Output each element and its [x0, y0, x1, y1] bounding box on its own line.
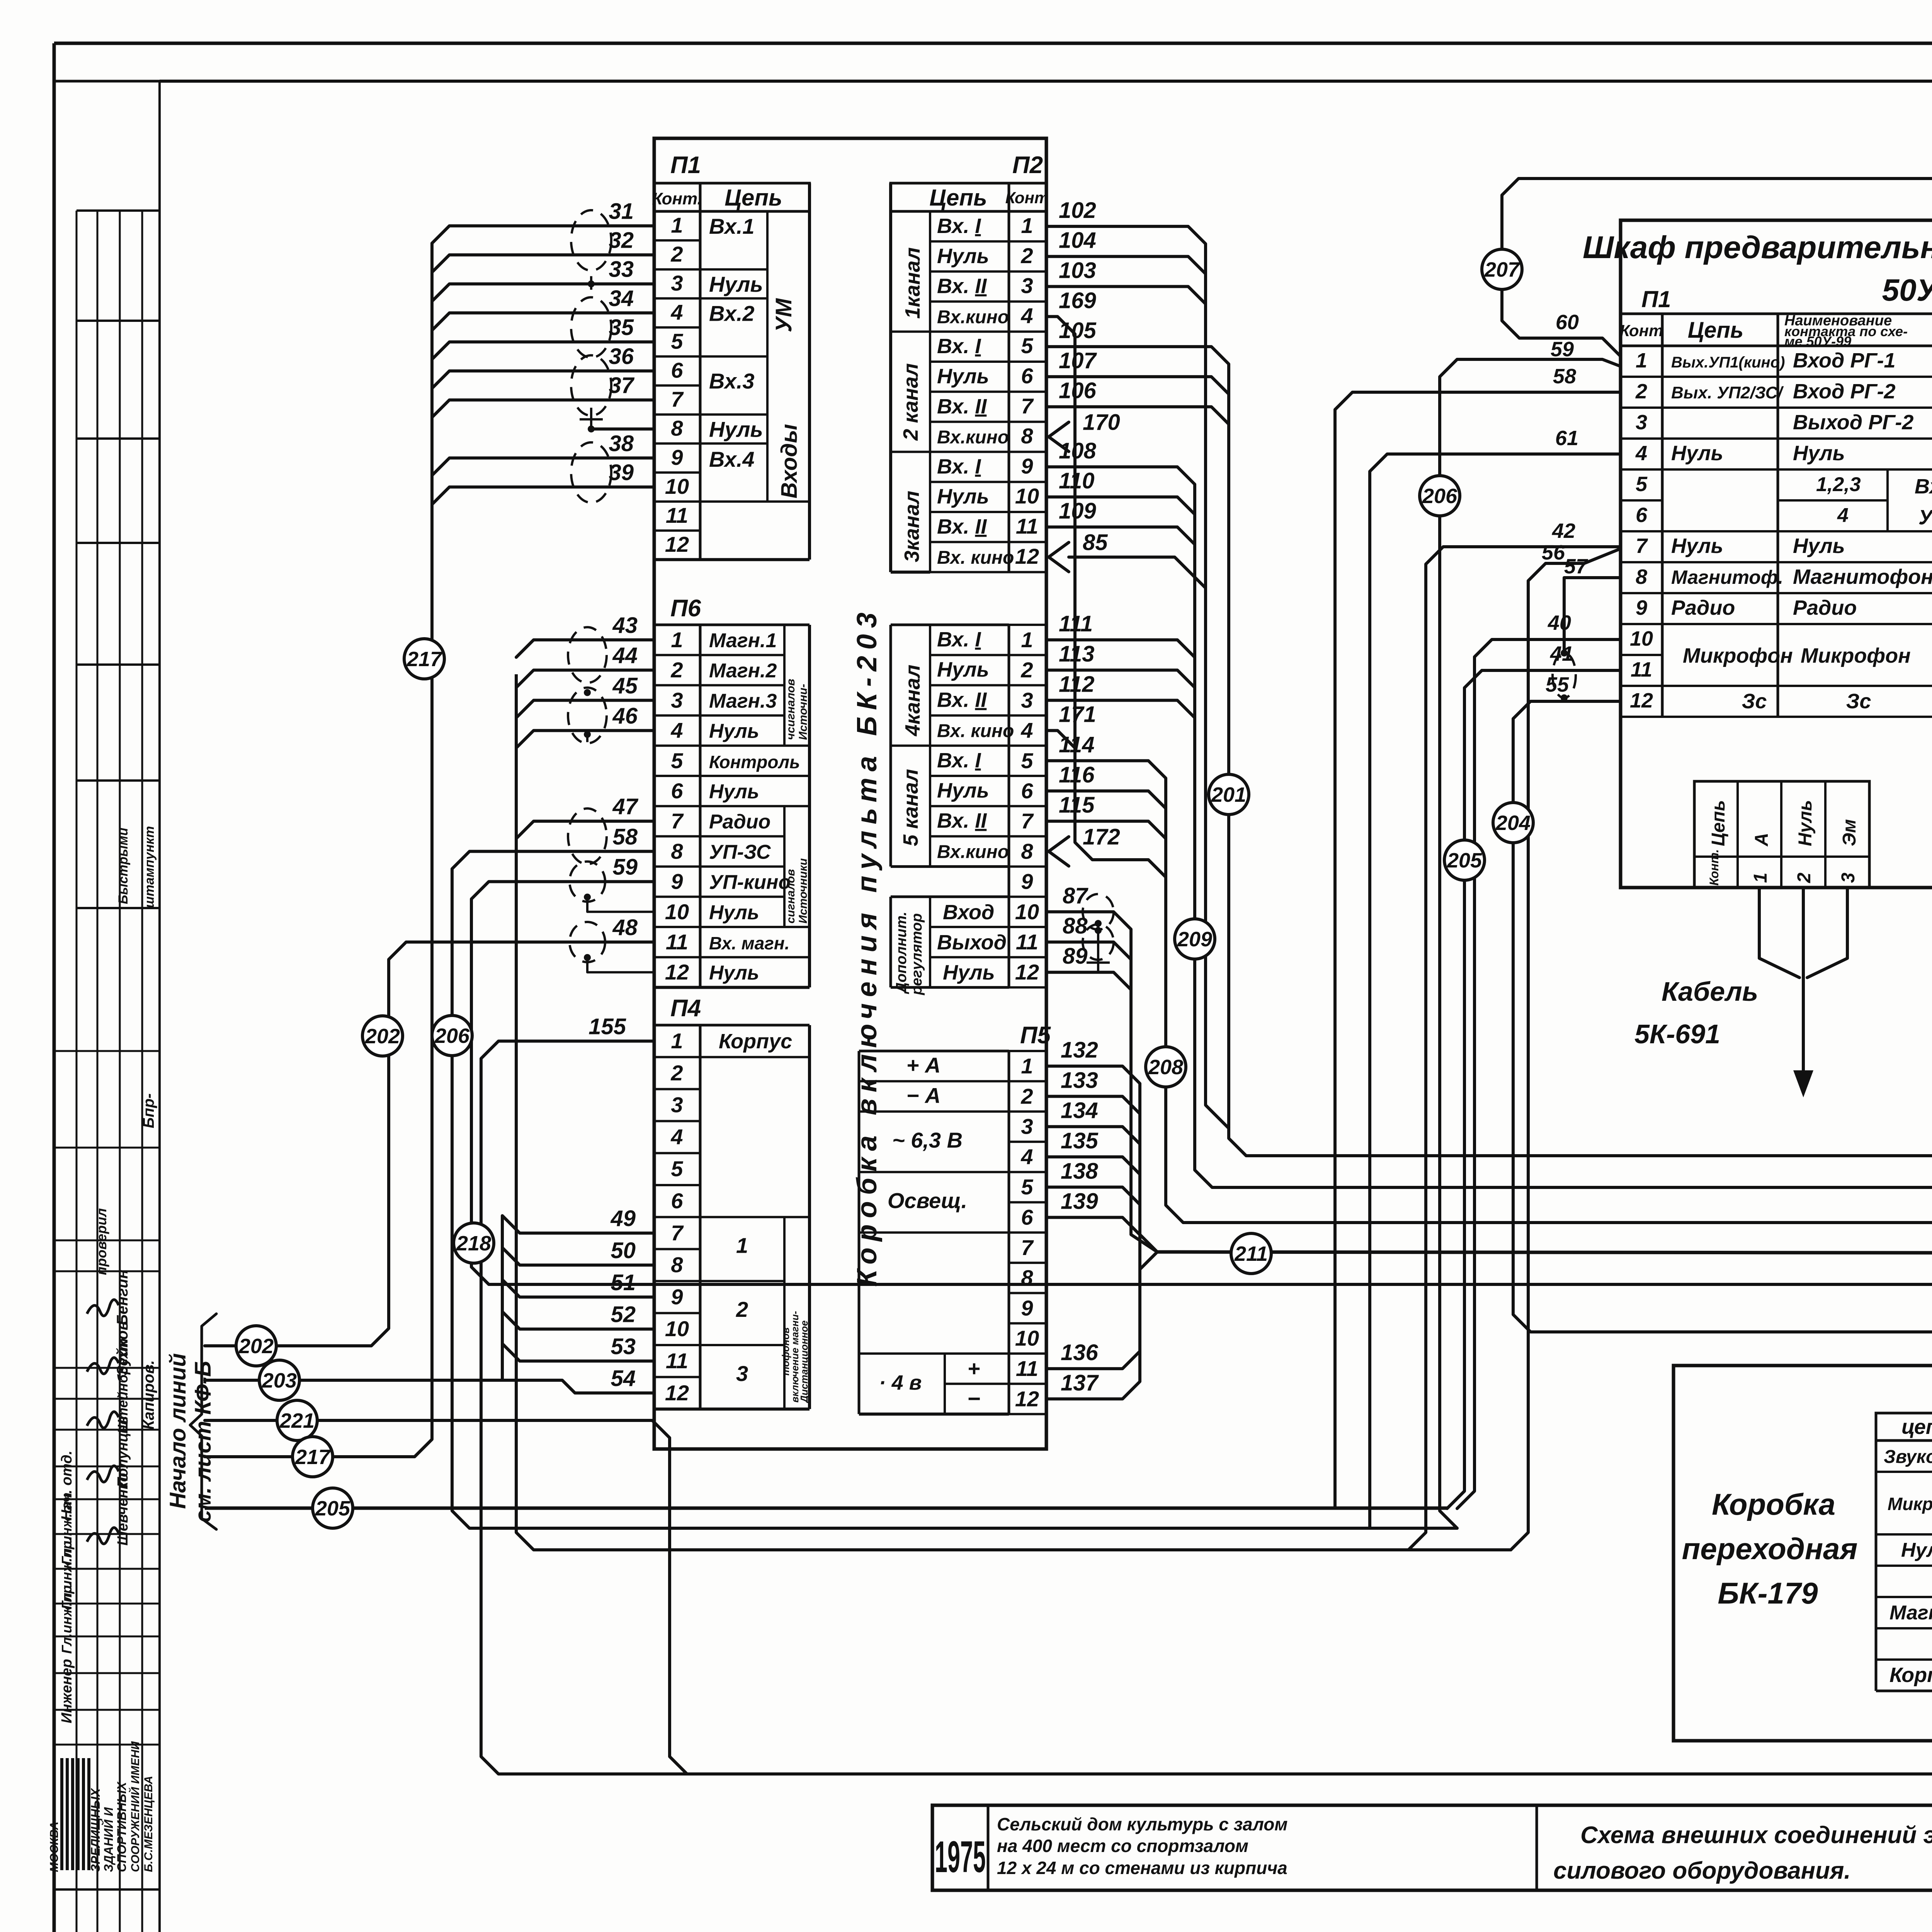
svg-text:Конт.: Конт. — [1707, 849, 1721, 886]
svg-text:ЗРЕЛИЩНЫХ: ЗРЕЛИЩНЫХ — [88, 1788, 102, 1872]
svg-text:П2: П2 — [1012, 152, 1043, 179]
svg-text:Магн.3: Магн.3 — [709, 690, 777, 712]
svg-text:3: 3 — [671, 1093, 683, 1117]
svg-text:Магн.2: Магн.2 — [709, 660, 777, 682]
svg-text:Контроль: Контроль — [709, 752, 800, 772]
svg-text:Нуль: Нуль — [937, 245, 989, 268]
svg-text:12: 12 — [1630, 689, 1653, 712]
svg-text:− А: − А — [906, 1083, 941, 1107]
svg-text:Вх.3: Вх.3 — [709, 369, 755, 393]
svg-text:10: 10 — [1015, 900, 1039, 924]
svg-text:Корпус: Корпус — [719, 1030, 792, 1053]
svg-text:6: 6 — [1021, 1205, 1033, 1230]
svg-text:Нуль: Нуль — [709, 901, 759, 924]
svg-text:12: 12 — [1015, 960, 1039, 984]
svg-text:54: 54 — [611, 1366, 636, 1391]
svg-text:тофонов: тофонов — [780, 1327, 791, 1376]
svg-text:3: 3 — [671, 688, 683, 712]
svg-text:Вх.кино: Вх.кино — [937, 307, 1009, 327]
svg-text:57: 57 — [1564, 555, 1588, 578]
svg-text:Дополнит.: Дополнит. — [893, 912, 910, 994]
svg-text:3: 3 — [1838, 872, 1859, 883]
svg-text:218: 218 — [456, 1232, 491, 1255]
svg-text:4канал: 4канал — [901, 665, 924, 736]
svg-text:переходная: переходная — [1682, 1532, 1858, 1566]
svg-text:10: 10 — [1015, 1326, 1039, 1350]
svg-text:Вх. I: Вх. I — [937, 628, 981, 651]
svg-text:155: 155 — [588, 1014, 626, 1039]
svg-text:172: 172 — [1083, 824, 1120, 849]
svg-text:1: 1 — [1021, 1054, 1033, 1078]
svg-text:Нуль: Нуль — [937, 485, 989, 508]
svg-text:42: 42 — [1552, 519, 1575, 543]
svg-text:Нуль: Нуль — [709, 720, 759, 743]
svg-text:52: 52 — [611, 1302, 636, 1327]
svg-text:+: + — [968, 1356, 980, 1381]
svg-text:10: 10 — [665, 474, 689, 498]
svg-text:чсигналов: чсигналов — [784, 679, 797, 740]
svg-text:1975: 1975 — [935, 1832, 986, 1882]
svg-text:36: 36 — [609, 344, 634, 369]
svg-text:9: 9 — [671, 869, 683, 894]
svg-text:47: 47 — [612, 794, 638, 819]
svg-text:Магн.1: Магн.1 — [709, 629, 777, 652]
svg-text:Нуль: Нуль — [1795, 800, 1816, 846]
svg-text:2: 2 — [1635, 380, 1647, 403]
svg-text:202: 202 — [365, 1025, 400, 1048]
svg-text:см. лист КФ-Б: см. лист КФ-Б — [190, 1361, 216, 1522]
svg-text:Вх. I: Вх. I — [937, 749, 981, 772]
svg-text:61: 61 — [1555, 427, 1578, 450]
svg-text:~ 6,3 В: ~ 6,3 В — [892, 1128, 963, 1152]
svg-text:43: 43 — [612, 613, 638, 638]
svg-text:Нуль: Нуль — [943, 961, 995, 984]
svg-text:Вх. II: Вх. II — [937, 809, 987, 832]
svg-text:Коробка включения пульта БК: Коробка включения пульта БК-203 — [852, 606, 883, 1287]
svg-text:7: 7 — [1021, 1235, 1034, 1260]
svg-text:СПОРТИВНЫХ: СПОРТИВНЫХ — [115, 1781, 129, 1872]
svg-text:12: 12 — [665, 1381, 689, 1405]
svg-text:3: 3 — [1021, 688, 1033, 712]
svg-text:2 канал: 2 канал — [899, 363, 922, 441]
svg-text:−: − — [967, 1386, 980, 1411]
svg-text:2: 2 — [670, 658, 683, 682]
svg-text:Нуль: Нуль — [709, 962, 759, 984]
svg-text:112: 112 — [1059, 672, 1094, 697]
svg-text:170: 170 — [1083, 410, 1120, 435]
svg-text:Магнит.: Магнит. — [1889, 1602, 1932, 1624]
svg-text:Нуль: Нуль — [1793, 534, 1845, 558]
svg-text:4: 4 — [670, 300, 683, 324]
svg-text:Вых. УП2/ЗС/: Вых. УП2/ЗС/ — [1671, 383, 1784, 402]
svg-text:Нуль: Нуль — [709, 417, 763, 442]
svg-text:3канал: 3канал — [900, 491, 923, 562]
svg-text:206: 206 — [434, 1024, 470, 1048]
svg-text:6: 6 — [1021, 779, 1033, 803]
svg-text:11: 11 — [666, 503, 688, 527]
svg-text:37: 37 — [609, 373, 634, 398]
svg-text:Вход РГ-1: Вход РГ-1 — [1793, 349, 1896, 372]
svg-text:2: 2 — [1794, 872, 1815, 883]
svg-text:12: 12 — [1015, 1386, 1039, 1411]
svg-text:Выход РГ-2: Выход РГ-2 — [1793, 411, 1913, 434]
svg-text:206: 206 — [1422, 485, 1458, 508]
svg-text:Звукосним: Звукосним — [1884, 1447, 1932, 1467]
svg-text:Микрофон: Микрофон — [1683, 644, 1793, 667]
svg-text:211: 211 — [1234, 1242, 1268, 1265]
svg-text:Нуль: Нуль — [937, 779, 989, 802]
svg-text:113: 113 — [1059, 641, 1094, 667]
svg-text:2: 2 — [670, 1061, 683, 1085]
svg-text:85: 85 — [1083, 530, 1108, 555]
svg-text:Бенгин: Бенгин — [114, 1269, 131, 1325]
svg-text:106: 106 — [1059, 378, 1097, 403]
svg-text:Микрофон: Микрофон — [1888, 1494, 1932, 1514]
svg-text:7: 7 — [1021, 394, 1034, 418]
svg-text:35: 35 — [609, 315, 634, 340]
svg-text:Вх. кино: Вх. кино — [937, 721, 1014, 742]
svg-text:БК-179: БК-179 — [1718, 1576, 1818, 1610]
svg-text:50: 50 — [611, 1238, 636, 1263]
svg-text:2: 2 — [1020, 243, 1033, 268]
svg-text:штампункт: штампункт — [142, 826, 157, 908]
svg-text:цепь: цепь — [1901, 1415, 1932, 1439]
svg-text:П1: П1 — [670, 152, 701, 179]
svg-text:+ А: + А — [906, 1053, 941, 1077]
svg-text:114: 114 — [1059, 732, 1094, 757]
svg-text:5: 5 — [671, 748, 683, 773]
svg-text:ме 50У-99: ме 50У-99 — [1784, 333, 1851, 349]
svg-text:4: 4 — [670, 718, 683, 743]
svg-text:7: 7 — [671, 387, 684, 412]
svg-text:12 х 24 м со стенами из: 12 х 24 м со стенами из кирпича — [997, 1858, 1287, 1878]
svg-text:Радио: Радио — [1793, 596, 1857, 619]
svg-text:102: 102 — [1059, 198, 1096, 223]
svg-text:12: 12 — [1015, 544, 1039, 568]
svg-text:Входы: Входы — [777, 424, 802, 498]
svg-text:Нуль: Нуль — [937, 365, 989, 388]
svg-text:Радио: Радио — [709, 811, 770, 833]
svg-text:МОСКВА: МОСКВА — [48, 1821, 61, 1872]
svg-text:111: 111 — [1059, 611, 1093, 636]
svg-text:Вх.2: Вх.2 — [709, 301, 755, 325]
svg-text:1канал: 1канал — [901, 247, 924, 319]
svg-text:Инженер: Инженер — [59, 1659, 75, 1723]
svg-text:171: 171 — [1059, 702, 1096, 727]
svg-text:205: 205 — [1447, 849, 1482, 872]
svg-text:6: 6 — [671, 358, 683, 383]
svg-text:Б.С.МЕЗЕНЦЕВА: Б.С.МЕЗЕНЦЕВА — [142, 1776, 155, 1872]
svg-text:8: 8 — [1021, 839, 1033, 863]
svg-text:31: 31 — [609, 199, 634, 224]
svg-text:5: 5 — [1021, 1175, 1033, 1199]
svg-text:Конт: Конт — [1620, 321, 1663, 340]
svg-text:4: 4 — [1020, 1145, 1033, 1169]
svg-text:А: А — [1752, 833, 1772, 847]
svg-text:4: 4 — [1020, 718, 1033, 743]
svg-text:109: 109 — [1059, 498, 1096, 524]
svg-text:5: 5 — [671, 1156, 683, 1181]
svg-text:Вх. II: Вх. II — [937, 275, 987, 298]
svg-text:УО: УО — [1918, 506, 1932, 529]
svg-text:1: 1 — [671, 1029, 683, 1053]
svg-text:Вх.кино: Вх.кино — [937, 842, 1009, 862]
svg-text:регулятор: регулятор — [909, 913, 925, 996]
svg-text:59: 59 — [1551, 338, 1574, 361]
svg-text:Цепь: Цепь — [1688, 318, 1743, 343]
svg-text:1: 1 — [736, 1233, 748, 1258]
svg-text:221: 221 — [279, 1409, 315, 1432]
svg-text:5: 5 — [671, 329, 683, 353]
svg-text:202: 202 — [238, 1335, 274, 1358]
svg-text:136: 136 — [1061, 1340, 1099, 1365]
svg-text:6: 6 — [671, 1189, 683, 1213]
svg-text:Вх. I: Вх. I — [937, 335, 981, 358]
svg-text:6: 6 — [1021, 364, 1033, 388]
svg-text:Вход: Вход — [943, 901, 994, 924]
svg-text:10: 10 — [665, 900, 689, 924]
svg-text:5К-691: 5К-691 — [1634, 1019, 1720, 1049]
svg-text:Нуль: Нуль — [1901, 1539, 1932, 1561]
svg-text:Цепь: Цепь — [929, 185, 987, 211]
svg-text:Нуль: Нуль — [937, 658, 989, 681]
svg-text:9: 9 — [671, 1284, 683, 1309]
svg-text:134: 134 — [1061, 1098, 1098, 1123]
svg-text:Микрофон: Микрофон — [1801, 644, 1911, 667]
svg-text:Источники: Источники — [797, 858, 810, 923]
svg-text:51: 51 — [611, 1270, 636, 1295]
svg-text:П4: П4 — [670, 995, 701, 1022]
svg-text:Освещ.: Освещ. — [888, 1189, 967, 1213]
svg-text:58: 58 — [612, 824, 638, 849]
svg-text:9: 9 — [1021, 1296, 1033, 1320]
svg-text:132: 132 — [1061, 1037, 1098, 1063]
svg-text:П6: П6 — [670, 595, 701, 622]
svg-text:34: 34 — [609, 286, 634, 311]
svg-text:204: 204 — [1495, 811, 1531, 835]
svg-text:2: 2 — [1020, 1084, 1033, 1108]
svg-text:Шкаф предварительных усилите: Шкаф предварительных усилителей — [1583, 230, 1932, 265]
svg-text:Вх. II: Вх. II — [937, 515, 987, 538]
svg-text:силового оборудования.: силового оборудования. — [1553, 1857, 1851, 1884]
svg-text:1: 1 — [671, 628, 683, 652]
svg-text:56: 56 — [1542, 541, 1565, 564]
svg-text:2: 2 — [1020, 658, 1033, 682]
svg-text:Нуль: Нуль — [1793, 442, 1845, 465]
svg-text:133: 133 — [1061, 1068, 1098, 1093]
svg-text:Начало линий: Начало линий — [165, 1353, 190, 1509]
svg-text:6: 6 — [1636, 503, 1648, 527]
svg-text:Магнитофон: Магнитофон — [1793, 565, 1932, 588]
svg-text:2: 2 — [736, 1297, 748, 1321]
svg-text:3: 3 — [736, 1361, 748, 1386]
svg-text:Вход РГ-2: Вход РГ-2 — [1793, 380, 1896, 403]
svg-text:50У-99: 50У-99 — [1882, 273, 1932, 307]
svg-text:Конт: Конт — [1005, 189, 1049, 207]
svg-text:9: 9 — [1636, 596, 1647, 619]
svg-text:58: 58 — [1553, 365, 1576, 388]
svg-text:5: 5 — [1021, 748, 1033, 773]
svg-text:Вх. I: Вх. I — [937, 455, 981, 478]
svg-text:39: 39 — [609, 460, 634, 485]
svg-text:на 400 мест со спортзалом: на 400 мест со спортзалом — [997, 1836, 1248, 1856]
svg-text:УП-ЗС: УП-ЗС — [709, 841, 771, 863]
svg-text:8: 8 — [1021, 424, 1033, 448]
svg-text:СООРУЖЕНИЙ ИМЕНИ: СООРУЖЕНИЙ ИМЕНИ — [128, 1741, 142, 1872]
svg-text:32: 32 — [609, 228, 634, 253]
svg-text:2: 2 — [670, 242, 683, 266]
svg-text:8: 8 — [1021, 1265, 1033, 1290]
svg-text:1: 1 — [1636, 349, 1647, 372]
svg-text:12: 12 — [665, 532, 689, 556]
svg-text:44: 44 — [612, 643, 638, 668]
svg-text:3: 3 — [1021, 1114, 1033, 1139]
svg-text:Кабель: Кабель — [1662, 976, 1758, 1007]
svg-text:Шевченко: Шевченко — [115, 1473, 131, 1546]
svg-text:Нуль: Нуль — [1671, 442, 1723, 465]
svg-text:Эм: Эм — [1839, 819, 1860, 846]
svg-text:10: 10 — [665, 1316, 689, 1341]
svg-text:116: 116 — [1059, 762, 1095, 787]
svg-text:11: 11 — [1016, 930, 1038, 954]
svg-text:Капиров.: Капиров. — [140, 1360, 157, 1430]
svg-text:45: 45 — [612, 673, 638, 698]
svg-text:107: 107 — [1059, 348, 1097, 373]
svg-text:11: 11 — [666, 930, 688, 954]
svg-text:104: 104 — [1059, 228, 1096, 253]
svg-text:Корпус: Корпус — [1889, 1663, 1932, 1687]
svg-text:12: 12 — [665, 960, 689, 984]
svg-text:П1: П1 — [1641, 286, 1671, 312]
svg-text:137: 137 — [1061, 1370, 1099, 1395]
svg-text:9: 9 — [1021, 869, 1033, 894]
svg-text:· 4 в: · 4 в — [879, 1371, 922, 1394]
svg-text:Вх. кино: Вх. кино — [937, 548, 1014, 568]
svg-text:Вх. II: Вх. II — [937, 688, 987, 711]
svg-text:4: 4 — [1635, 442, 1647, 465]
svg-text:Зс: Зс — [1742, 690, 1767, 713]
svg-text:Магнитоф.: Магнитоф. — [1671, 566, 1783, 588]
svg-text:1: 1 — [1021, 628, 1033, 652]
svg-text:Гл.инж.пр.: Гл.инж.пр. — [59, 1582, 75, 1654]
svg-text:7: 7 — [1636, 534, 1648, 558]
svg-text:11: 11 — [666, 1349, 688, 1373]
svg-text:49: 49 — [610, 1206, 636, 1231]
svg-text:11: 11 — [1016, 1356, 1038, 1381]
svg-text:Источни-: Источни- — [797, 684, 810, 740]
svg-text:38: 38 — [609, 431, 634, 456]
svg-text:5: 5 — [1021, 333, 1033, 358]
svg-text:7: 7 — [671, 809, 684, 833]
svg-text:41: 41 — [1550, 642, 1573, 665]
svg-text:59: 59 — [612, 855, 638, 880]
svg-text:Вх.кино: Вх.кино — [937, 427, 1009, 448]
svg-text:48: 48 — [612, 915, 638, 940]
svg-text:Схема внешних с: Схема внешних соединений электро- — [1580, 1822, 1932, 1849]
svg-text:Зс: Зс — [1846, 690, 1871, 713]
svg-text:87: 87 — [1063, 883, 1088, 908]
svg-text:3: 3 — [1636, 411, 1647, 434]
svg-text:1,2,3: 1,2,3 — [1816, 473, 1861, 496]
svg-text:Сельский дом культурь с за: Сельский дом культурь с залом — [997, 1814, 1287, 1834]
svg-text:55: 55 — [1546, 673, 1569, 696]
svg-text:8: 8 — [671, 1253, 683, 1277]
svg-text:5: 5 — [1636, 473, 1648, 496]
svg-text:Конт.: Конт. — [652, 189, 702, 208]
svg-text:Нуль: Нуль — [709, 272, 763, 296]
svg-text:209: 209 — [1177, 928, 1212, 951]
svg-text:Быстрыми: Быстрыми — [116, 828, 131, 904]
svg-text:217: 217 — [406, 648, 443, 671]
svg-text:УМ: УМ — [771, 298, 796, 332]
svg-text:8: 8 — [671, 416, 683, 440]
svg-text:11: 11 — [1016, 514, 1038, 538]
svg-text:Нуль: Нуль — [709, 781, 759, 803]
svg-text:138: 138 — [1061, 1158, 1099, 1184]
svg-text:Коробка: Коробка — [1712, 1487, 1835, 1521]
svg-text:проверил: проверил — [94, 1208, 109, 1275]
svg-text:6: 6 — [671, 779, 683, 803]
svg-text:Бпр-: Бпр- — [140, 1093, 157, 1128]
svg-text:108: 108 — [1059, 438, 1097, 463]
svg-text:УП-кино: УП-кино — [709, 871, 791, 894]
svg-text:1: 1 — [1021, 213, 1033, 238]
svg-text:217: 217 — [295, 1446, 331, 1469]
svg-text:Вх. магн.: Вх. магн. — [709, 933, 789, 953]
svg-text:7: 7 — [671, 1221, 684, 1245]
svg-text:7: 7 — [1021, 809, 1034, 833]
svg-text:46: 46 — [612, 704, 638, 729]
svg-text:110: 110 — [1059, 468, 1094, 493]
svg-text:Радио: Радио — [1671, 596, 1735, 619]
svg-text:Цепь: Цепь — [724, 185, 782, 211]
svg-text:5 канал: 5 канал — [899, 769, 922, 846]
svg-text:Вх.4: Вх.4 — [709, 447, 755, 471]
svg-text:3: 3 — [1021, 274, 1033, 298]
svg-text:Вых.УП1(кино): Вых.УП1(кино) — [1671, 354, 1785, 371]
svg-text:Вход: Вход — [1915, 475, 1932, 498]
svg-text:169: 169 — [1059, 288, 1096, 313]
svg-text:1: 1 — [671, 213, 683, 237]
svg-text:Вх.1: Вх.1 — [709, 214, 755, 238]
svg-text:1: 1 — [1750, 872, 1771, 883]
svg-text:Выход: Выход — [937, 931, 1007, 954]
svg-text:Вх. I: Вх. I — [937, 214, 981, 238]
svg-text:33: 33 — [609, 257, 634, 282]
svg-text:сигналов: сигналов — [784, 869, 797, 923]
svg-text:ЗДАНИЙ И: ЗДАНИЙ И — [102, 1807, 116, 1872]
svg-text:103: 103 — [1059, 258, 1096, 283]
svg-text:10: 10 — [1630, 627, 1653, 650]
svg-text:53: 53 — [611, 1334, 636, 1359]
svg-text:205: 205 — [315, 1497, 350, 1520]
svg-text:208: 208 — [1148, 1056, 1183, 1079]
svg-text:9: 9 — [1021, 454, 1033, 478]
svg-text:Нуль: Нуль — [1671, 534, 1723, 558]
svg-text:3: 3 — [671, 271, 683, 295]
svg-text:Вх. II: Вх. II — [937, 395, 987, 418]
svg-text:207: 207 — [1484, 258, 1520, 281]
svg-text:105: 105 — [1059, 318, 1097, 343]
svg-text:8: 8 — [671, 839, 683, 863]
svg-text:10: 10 — [1015, 484, 1039, 508]
svg-text:135: 135 — [1061, 1128, 1099, 1153]
svg-text:П5: П5 — [1020, 1022, 1051, 1049]
svg-text:115: 115 — [1059, 793, 1095, 818]
svg-text:Цепь: Цепь — [1708, 800, 1729, 846]
svg-text:40: 40 — [1548, 611, 1571, 634]
svg-text:4: 4 — [1837, 504, 1849, 527]
